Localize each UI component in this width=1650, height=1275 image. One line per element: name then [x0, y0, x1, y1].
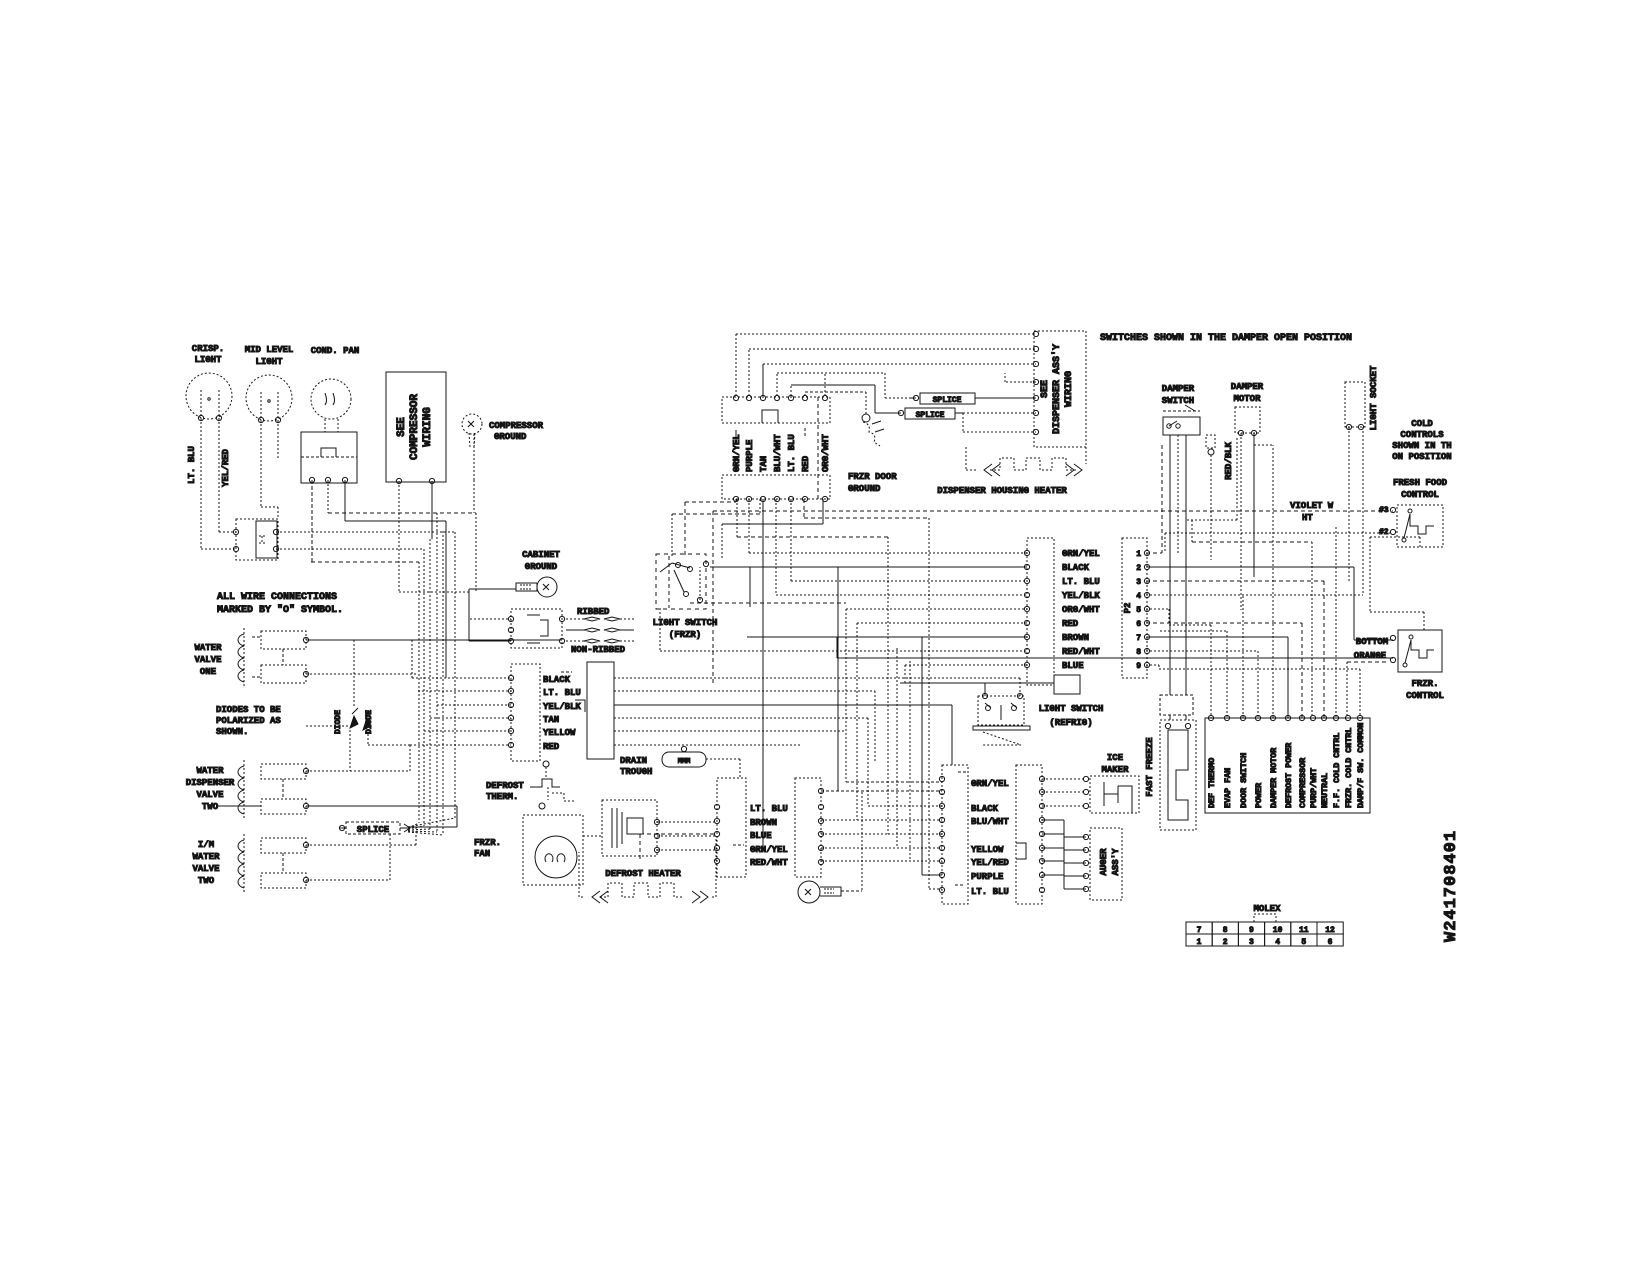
svg-text:ORANGE: ORANGE: [1354, 651, 1387, 661]
svg-text:6: 6: [1328, 938, 1333, 947]
svg-text:1: 1: [1136, 550, 1141, 559]
svg-text:CABINET: CABINET: [522, 550, 560, 560]
svg-text:I/M: I/M: [198, 840, 214, 850]
svg-text:LT. BLU: LT. BLU: [187, 446, 197, 484]
svg-text:DIODES TO BE: DIODES TO BE: [216, 705, 281, 715]
svg-text:HT: HT: [1302, 513, 1313, 523]
svg-text:LT. BLU: LT. BLU: [787, 434, 797, 472]
svg-text:RED/WHT: RED/WHT: [750, 858, 788, 868]
svg-text:GRN/YEL: GRN/YEL: [1062, 549, 1100, 559]
svg-text:LT. BLU: LT. BLU: [543, 688, 581, 698]
svg-text:SEE: SEE: [396, 417, 408, 437]
svg-text:4: 4: [1275, 938, 1280, 947]
svg-text:3: 3: [1249, 938, 1254, 947]
svg-text:BLUE: BLUE: [1062, 661, 1084, 671]
svg-text:LIGHT SOCKET: LIGHT SOCKET: [1369, 365, 1379, 430]
svg-text:CONTROLS: CONTROLS: [1400, 430, 1444, 440]
svg-text:BLU/WHT: BLU/WHT: [773, 434, 783, 472]
svg-text:YEL/BLK: YEL/BLK: [1062, 591, 1100, 601]
svg-text:DEF THERMO: DEF THERMO: [1207, 758, 1217, 808]
svg-text:LT. BLU: LT. BLU: [750, 804, 788, 814]
svg-text:DAMPER: DAMPER: [1162, 384, 1195, 394]
svg-text:7: 7: [1197, 926, 1202, 935]
svg-text:YEL/RED: YEL/RED: [221, 449, 231, 487]
svg-text:DAMPER: DAMPER: [1231, 382, 1264, 392]
svg-text:LIGHT: LIGHT: [255, 357, 283, 367]
svg-text:SHOWN IN TH: SHOWN IN TH: [1392, 441, 1451, 451]
svg-text:W241708401: W241708401: [1442, 830, 1461, 942]
svg-text:CONTROL: CONTROL: [1401, 490, 1439, 500]
svg-text:GRN/YEL: GRN/YEL: [732, 434, 742, 472]
svg-text:WATER: WATER: [196, 766, 224, 776]
svg-text:11: 11: [1299, 926, 1309, 935]
svg-text:(REFRIG): (REFRIG): [1049, 718, 1092, 728]
svg-text:BOTTOM: BOTTOM: [1356, 637, 1388, 647]
svg-text:8: 8: [1136, 648, 1141, 657]
svg-text:SPLICE: SPLICE: [357, 825, 390, 835]
svg-text:RED: RED: [543, 742, 560, 752]
svg-text:SWITCH: SWITCH: [1162, 396, 1194, 406]
svg-text:4: 4: [1136, 592, 1141, 601]
svg-text:SPLICE: SPLICE: [933, 396, 962, 405]
svg-text:BLACK: BLACK: [1062, 563, 1090, 573]
svg-text:MOTOR: MOTOR: [1233, 394, 1261, 404]
svg-text:YEL/RED: YEL/RED: [971, 858, 1009, 868]
svg-text:ICE: ICE: [1107, 753, 1124, 763]
svg-text:#2: #2: [1379, 528, 1389, 537]
svg-text:YELLOW: YELLOW: [543, 728, 576, 738]
svg-text:DEFROST: DEFROST: [486, 781, 524, 791]
svg-text:2: 2: [1223, 938, 1228, 947]
svg-text:CRISP.: CRISP.: [192, 344, 224, 354]
svg-text:NON-RIBBED: NON-RIBBED: [571, 645, 626, 655]
svg-text:YEL/BLK: YEL/BLK: [543, 702, 581, 712]
svg-text:PURPLE: PURPLE: [971, 872, 1004, 882]
svg-text:COMPRESSOR: COMPRESSOR: [409, 394, 421, 460]
svg-text:RED/WHT: RED/WHT: [1062, 647, 1100, 657]
svg-text:ORG/WHT: ORG/WHT: [821, 434, 831, 472]
svg-text:COND. PAN: COND. PAN: [311, 346, 360, 356]
svg-text:FAN: FAN: [474, 849, 490, 859]
svg-text:BROWN: BROWN: [750, 818, 777, 828]
svg-text:AUGER: AUGER: [1099, 848, 1109, 876]
svg-text:DAMP/F SW. COMMON: DAMP/F SW. COMMON: [1356, 723, 1366, 808]
svg-text:6: 6: [1136, 620, 1141, 629]
svg-text:WATER: WATER: [194, 643, 222, 653]
svg-text:F.F. COLD CNTRL: F.F. COLD CNTRL: [1332, 733, 1342, 808]
svg-text:RED: RED: [801, 455, 811, 472]
svg-text:BLACK: BLACK: [543, 675, 571, 685]
svg-text:GROUND: GROUND: [848, 484, 881, 494]
svg-text:MMM: MMM: [678, 758, 691, 766]
svg-text:ONE: ONE: [200, 667, 217, 677]
svg-text:RIBBED: RIBBED: [577, 607, 610, 617]
svg-text:LIGHT SWITCH: LIGHT SWITCH: [1039, 704, 1104, 714]
svg-text:YELLOW: YELLOW: [971, 845, 1004, 855]
svg-text:ORG/WHT: ORG/WHT: [1062, 605, 1100, 615]
svg-text:SWITCHES SHOWN IN THE DAMPER O: SWITCHES SHOWN IN THE DAMPER OPEN POSITI…: [1100, 333, 1352, 344]
svg-text:RED: RED: [1062, 619, 1079, 629]
svg-text:FRZR. COLD CNTRL: FRZR. COLD CNTRL: [1344, 728, 1354, 808]
svg-text:GRN/YEL: GRN/YEL: [971, 779, 1009, 789]
svg-text:VIOLET W: VIOLET W: [1290, 501, 1334, 511]
svg-text:COMPRESSOR: COMPRESSOR: [489, 421, 544, 431]
svg-text:DISPENSER ASS'Y: DISPENSER ASS'Y: [1051, 344, 1063, 434]
svg-text:SPLICE: SPLICE: [916, 411, 945, 420]
svg-text:EVAP FAN: EVAP FAN: [1223, 768, 1233, 808]
svg-text:BROWN: BROWN: [1062, 633, 1089, 643]
svg-text:LT. BLU: LT. BLU: [971, 887, 1009, 897]
svg-text:FAST FREEZE: FAST FREEZE: [1145, 737, 1155, 797]
svg-text:TROUGH: TROUGH: [620, 767, 652, 777]
svg-text:5: 5: [1301, 938, 1306, 947]
svg-text:POWER: POWER: [1254, 782, 1264, 808]
svg-text:RED/BLK: RED/BLK: [1224, 442, 1234, 480]
svg-text:LT. BLU: LT. BLU: [1062, 577, 1100, 587]
svg-text:9: 9: [1136, 662, 1141, 671]
svg-text:DAMPER MOTOR: DAMPER MOTOR: [1269, 747, 1279, 808]
svg-text:5: 5: [1136, 606, 1141, 615]
svg-text:(FRZR): (FRZR): [669, 630, 701, 640]
svg-text:VALVE: VALVE: [194, 655, 222, 665]
svg-text:7: 7: [1136, 634, 1141, 643]
svg-text:FRESH FOOD: FRESH FOOD: [1393, 478, 1448, 488]
svg-text:GROUND: GROUND: [494, 432, 527, 442]
svg-text:WIRING: WIRING: [422, 407, 434, 447]
svg-text:2: 2: [1136, 564, 1141, 573]
svg-text:BLACK: BLACK: [971, 804, 999, 814]
svg-text:GRN/YEL: GRN/YEL: [750, 845, 788, 855]
svg-text:GROUND: GROUND: [525, 562, 558, 572]
svg-text:FRZR.: FRZR.: [1411, 679, 1438, 689]
svg-text:THERM.: THERM.: [486, 792, 518, 802]
svg-text:COMPRESSOR: COMPRESSOR: [1298, 757, 1308, 808]
svg-text:SHOWN.: SHOWN.: [216, 727, 248, 737]
svg-text:DISPENSER HOUSING HEATER: DISPENSER HOUSING HEATER: [937, 486, 1067, 496]
svg-text:DEFROST HEATER: DEFROST HEATER: [605, 869, 681, 879]
svg-text:DRAIN: DRAIN: [620, 756, 647, 766]
svg-text:P2: P2: [1123, 603, 1133, 614]
svg-text:WATER: WATER: [192, 852, 220, 862]
svg-text:DIODE: DIODE: [334, 710, 343, 734]
svg-text:CONTROL: CONTROL: [1406, 691, 1444, 701]
svg-text:ON POSITION: ON POSITION: [1392, 452, 1451, 462]
svg-text:BLU/WHT: BLU/WHT: [971, 817, 1009, 827]
svg-text:MARKED BY "O" SYMBOL.: MARKED BY "O" SYMBOL.: [217, 604, 343, 616]
svg-text:ALL WIRE CONNECTIONS: ALL WIRE CONNECTIONS: [217, 592, 337, 603]
svg-text:TWO: TWO: [198, 876, 215, 886]
svg-text:DISPENSER: DISPENSER: [186, 778, 235, 788]
svg-text:COLD: COLD: [1411, 419, 1433, 429]
svg-text:FRZR.: FRZR.: [474, 838, 501, 848]
svg-text:TWO: TWO: [202, 802, 219, 812]
svg-text:DOOR SWITCH: DOOR SWITCH: [1239, 753, 1249, 808]
svg-text:LIGHT: LIGHT: [194, 355, 222, 365]
svg-text:SEE: SEE: [1040, 380, 1051, 398]
svg-text:VALVE: VALVE: [196, 790, 224, 800]
svg-text:9: 9: [1249, 926, 1254, 935]
svg-text:TAN: TAN: [543, 715, 559, 725]
svg-text:10: 10: [1273, 926, 1283, 935]
svg-text:BLUE: BLUE: [750, 831, 772, 841]
svg-text:VALVE: VALVE: [192, 864, 220, 874]
svg-text:LIGHT SWITCH: LIGHT SWITCH: [653, 618, 718, 628]
svg-text:MOLEX: MOLEX: [1253, 904, 1281, 914]
svg-text:DEFROST POWER: DEFROST POWER: [1284, 742, 1294, 808]
svg-text:ASS'Y: ASS'Y: [1111, 848, 1121, 876]
svg-text:MAKER: MAKER: [1101, 765, 1129, 775]
svg-text:MID LEVEL: MID LEVEL: [245, 345, 294, 355]
svg-text:TAN: TAN: [759, 456, 769, 472]
svg-text:PURP/WHT: PURP/WHT: [1309, 768, 1319, 808]
svg-text:1: 1: [1197, 938, 1202, 947]
svg-text:PURPLE: PURPLE: [745, 439, 755, 472]
svg-text:FRZR DOOR: FRZR DOOR: [848, 472, 897, 482]
svg-text:NEUTRAL: NEUTRAL: [1320, 773, 1330, 808]
svg-text:3: 3: [1136, 578, 1141, 587]
svg-text:POLARIZED AS: POLARIZED AS: [216, 716, 281, 726]
svg-text:12: 12: [1325, 926, 1335, 935]
svg-text:WIRING: WIRING: [1064, 371, 1075, 407]
svg-text:8: 8: [1223, 926, 1228, 935]
